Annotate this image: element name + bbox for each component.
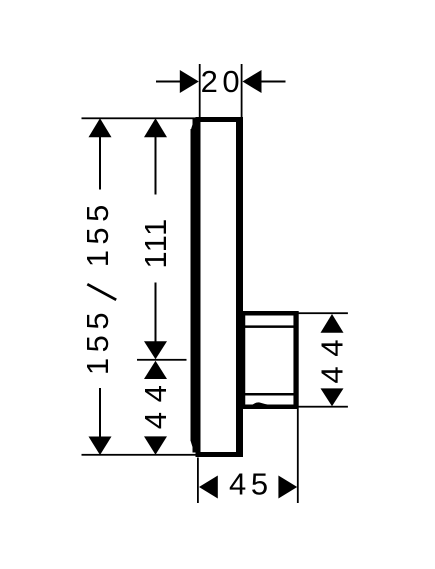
dimension 20: right extension line (241, 64, 243, 118)
dimension 111: lower line segment (155, 283, 157, 342)
dimension 45: left arrow (199, 476, 218, 499)
dimension 20: right arrow (243, 70, 262, 93)
dimension 111: bowtie down arrow (144, 341, 167, 359)
svg-text:45: 45 (229, 466, 273, 501)
protrusion body (44x45 concealed body) (243, 313, 296, 407)
protrusion inner line lower (243, 393, 294, 396)
bottom extension line for 155/44 (82, 454, 199, 456)
dimension 111: upper line segment (155, 136, 157, 195)
svg-text:111: 111 (138, 217, 173, 268)
dimension 45: left extension line (197, 458, 199, 504)
svg-text:155: 155 (80, 199, 115, 267)
dimension 155/155: lower line segment (99, 388, 101, 437)
dimension 155/155: top arrow (89, 118, 112, 137)
plate front face top lip (193, 119, 197, 131)
dimension 44 left: bottom arrow (144, 436, 167, 454)
protrusion bottom edge bump (251, 402, 268, 407)
svg-text:155: 155 (80, 307, 115, 375)
top extension line for 155/111 (82, 117, 199, 119)
dimension 44 right: top extension line (298, 312, 348, 314)
plate front face thick line (191, 129, 197, 441)
svg-text:20: 20 (201, 64, 244, 99)
dimension 44 left: bowtie up arrow (144, 361, 167, 379)
plate outline (side view of 155x20 faceplate) (198, 120, 241, 455)
protrusion inner line upper (243, 325, 294, 328)
dimension 155/155: upper line segment (99, 136, 101, 190)
dimension 44 right: top arrow (321, 314, 344, 333)
mid extension line at 111/44 boundary (137, 359, 187, 361)
dimension 20: right tail line (261, 81, 286, 83)
dimension 44 right: bottom arrow (321, 388, 344, 406)
dimension 155/155: label slash (87, 284, 116, 300)
dimension 20: left tail line (156, 81, 181, 83)
svg-text:4 4: 4 4 (138, 385, 173, 430)
dimension 45: right extension line (297, 311, 299, 503)
plate front face bottom lip (193, 439, 197, 453)
plate back face line (236, 120, 239, 453)
plate front face bottom chamfer (191, 441, 193, 449)
svg-text:4 4: 4 4 (315, 339, 350, 384)
dimension 45: right arrow (278, 476, 297, 499)
dimension 111: top arrow (144, 118, 167, 137)
dimension 155/155: bottom arrow (89, 437, 112, 456)
dimension 20: left extension line (199, 64, 201, 118)
plate front face top chamfer (191, 124, 193, 132)
dimension 44 right: bottom extension line (298, 406, 348, 408)
dimension 20: left arrow (180, 70, 199, 93)
